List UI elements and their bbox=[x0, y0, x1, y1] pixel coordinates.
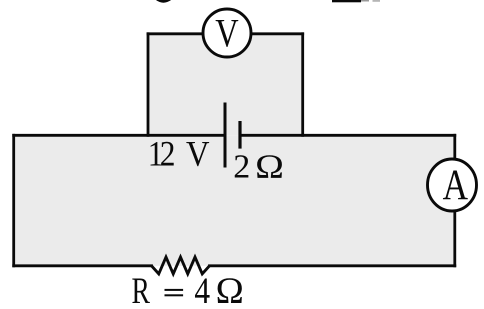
svg-text:2: 2 bbox=[233, 148, 250, 185]
svg-text:Ω: Ω bbox=[216, 270, 244, 309]
svg-text:Ω: Ω bbox=[255, 148, 284, 185]
svg-text:V: V bbox=[215, 10, 238, 55]
svg-text:V: V bbox=[186, 134, 210, 174]
svg-text:A: A bbox=[443, 161, 469, 209]
svg-text:R: R bbox=[132, 270, 151, 309]
svg-text:2: 2 bbox=[160, 134, 176, 174]
svg-text:4: 4 bbox=[194, 270, 210, 309]
